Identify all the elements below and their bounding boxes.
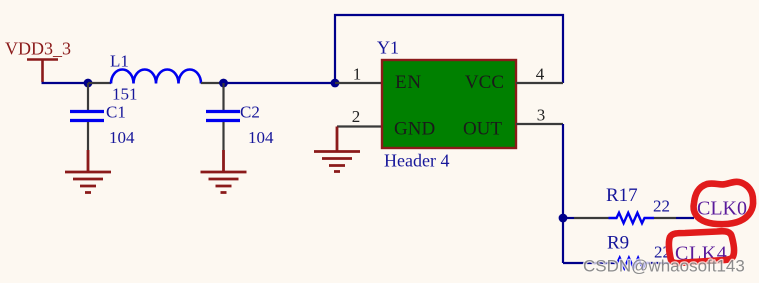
ground under C1 xyxy=(65,150,111,193)
wire node C to pin 1 xyxy=(335,82,382,84)
svg-text:EN: EN xyxy=(395,72,422,93)
wire pin 4 stub xyxy=(516,82,563,84)
wire pin 2 to ground xyxy=(337,125,382,127)
ground at pin 2 xyxy=(314,127,360,172)
svg-text:104: 104 xyxy=(109,128,135,147)
svg-text:104: 104 xyxy=(248,128,274,147)
wire pin 3 down to node D xyxy=(562,124,564,218)
svg-text:GND: GND xyxy=(394,119,435,140)
svg-text:Header 4: Header 4 xyxy=(384,151,449,171)
wire R17 to CLK0 xyxy=(654,217,676,219)
capacitor C1 xyxy=(70,83,135,150)
wire node D to R17 xyxy=(563,217,574,219)
svg-text:R9: R9 xyxy=(607,233,629,254)
red annotation circle around CLK0 xyxy=(694,182,754,224)
svg-text:3: 3 xyxy=(537,106,546,125)
svg-text:C2: C2 xyxy=(240,103,260,122)
wire node D down to R9 row xyxy=(562,218,564,263)
node A junction xyxy=(84,79,93,88)
svg-text:VCC: VCC xyxy=(465,72,504,93)
node D junction xyxy=(559,214,568,223)
svg-text:2: 2 xyxy=(352,107,361,126)
ground under C2 xyxy=(201,150,247,193)
wire node B to node C xyxy=(224,82,336,84)
watermark xyxy=(583,257,745,276)
inductor L1 xyxy=(110,52,201,104)
svg-text:CSDN@whaosoft143: CSDN@whaosoft143 xyxy=(583,257,745,276)
wire pin 3 stub xyxy=(516,123,563,125)
wire R9 to CLK4 xyxy=(650,262,672,264)
red annotation box around CLK4 xyxy=(669,231,734,263)
power symbol VDD3_3 xyxy=(5,39,71,83)
wire L1 to node B (pin) xyxy=(201,82,224,84)
svg-text:VDD3_3: VDD3_3 xyxy=(5,39,71,59)
node C junction xyxy=(331,79,340,88)
wire R9 row xyxy=(563,262,615,264)
resistor R17 xyxy=(606,185,670,223)
wire node C up and over to pin 4 xyxy=(335,15,563,83)
node B junction xyxy=(219,79,228,88)
svg-text:C1: C1 xyxy=(106,103,126,122)
svg-text:22: 22 xyxy=(653,197,670,216)
wire VDD3_3 to node A xyxy=(42,82,89,84)
svg-text:Y1: Y1 xyxy=(377,38,399,58)
svg-text:4: 4 xyxy=(536,65,545,84)
svg-text:CLK0: CLK0 xyxy=(697,198,747,220)
capacitor C2 xyxy=(206,83,274,150)
wire node A to L1 (pin) xyxy=(88,82,111,84)
resistor R9 xyxy=(607,233,671,269)
component Y1 Header 4 body xyxy=(377,38,516,171)
svg-text:151: 151 xyxy=(112,85,138,104)
svg-text:OUT: OUT xyxy=(463,119,502,140)
svg-text:L1: L1 xyxy=(110,52,129,71)
svg-text:R17: R17 xyxy=(606,185,638,206)
svg-text:1: 1 xyxy=(353,65,362,84)
